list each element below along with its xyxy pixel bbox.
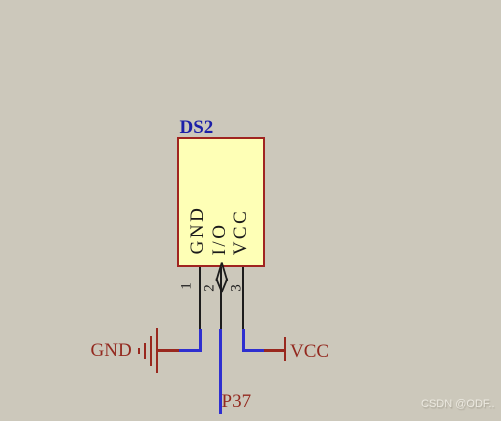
- wire pin2 vertical to P37: [219, 329, 222, 414]
- power port GND: bar 4 (shortest): [138, 348, 140, 354]
- power port VCC: bar: [284, 337, 286, 361]
- power port GND: bar 3: [144, 343, 146, 359]
- label GND: [91, 341, 132, 360]
- pin name GND: [187, 206, 209, 255]
- wire pin1 horizontal: [178, 349, 202, 352]
- pin number 2: [202, 284, 219, 292]
- pin 2: [220, 267, 222, 330]
- wire pin1 vertical: [199, 329, 202, 352]
- pin number 1: [178, 283, 195, 291]
- net label P37: [222, 392, 252, 411]
- watermark: [421, 398, 495, 410]
- power port GND: bar 2: [150, 336, 152, 366]
- pin number 3: [229, 284, 246, 292]
- pin name I/O: [209, 223, 231, 256]
- designator DS2: [180, 118, 214, 137]
- wire pin3 vertical: [242, 329, 245, 352]
- power port VCC: stem: [264, 349, 285, 352]
- power port GND: bar 1 (longest): [156, 328, 159, 373]
- pin name VCC: [230, 209, 252, 256]
- pin 2 I/O direction arrows: [210, 258, 234, 298]
- pin 1: [199, 267, 201, 330]
- pin 3: [242, 267, 244, 330]
- label VCC: [290, 342, 329, 361]
- component DS2 body: [177, 137, 265, 267]
- wire pin3 horizontal: [242, 349, 264, 352]
- power port GND: stem: [156, 349, 179, 352]
